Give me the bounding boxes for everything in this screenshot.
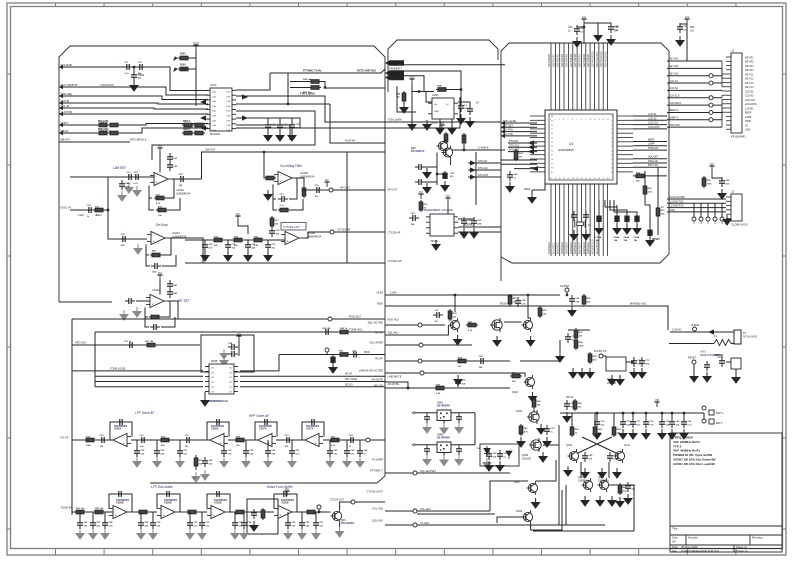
wire [571,413,573,425]
svg-text:2SB562-L: 2SB562-L [578,480,590,483]
svg-text:TX-LAMP: TX-LAMP [372,458,384,462]
wire [528,295,531,318]
svg-text:MOD: MOD [364,351,370,354]
svg-text:SET-TONE: SET-TONE [345,378,357,381]
ground [137,529,145,539]
ground [506,182,514,192]
svg-text:+: + [315,442,317,446]
resistor R137 [270,216,274,228]
wire feedback lower [273,184,276,199]
title block line above Date row [670,544,782,546]
wire MCU right net [633,128,667,130]
wire [417,513,495,515]
capacitor C163 [183,437,193,443]
capacitor C176 [280,491,290,497]
transistor Q202 [437,139,448,153]
svg-text:U102B: U102B [300,171,308,175]
wire net TXD-LApRA stair [236,96,385,122]
svg-text:47u: 47u [636,423,640,426]
wire [70,209,108,211]
wire [443,421,445,424]
svg-text:+: + [280,514,282,518]
wire stub [179,440,181,448]
wire to J1 pin 10 [667,126,722,128]
wire [179,511,207,513]
title block outer box [670,433,782,552]
ground [646,236,654,246]
junction [318,511,320,513]
capacitor C114 [119,180,125,190]
svg-text:C5A: C5A [228,342,233,345]
MCU bottom pins [551,184,608,200]
wire feedback loop [302,422,324,440]
ground up cap [454,375,462,385]
wire jbt out [168,301,178,319]
svg-text:KEY-IN4/R4: KEY-IN4/R4 [565,54,568,67]
wire [568,329,590,331]
connector P1 DC jack [734,330,741,344]
svg-text:AD0/SEG0: AD0/SEG0 [548,242,551,254]
svg-text:VCC: VCC [193,41,199,45]
wire [693,364,695,372]
wire net SHIFT [59,124,208,126]
svg-text:AUDIO 1W 10% Dist Load/4W: AUDIO 1W 10% Dist Load/4W [673,462,715,466]
wire stub [245,440,247,448]
capacitor [243,447,249,457]
svg-text:CTCSS-LPF: CTCSS-LPF [388,259,403,263]
svg-text:JBT SET: JBT SET [177,299,191,303]
wire feedback loop [207,494,230,512]
wire stub [92,512,94,520]
wire eeprom right bend [240,355,279,371]
connector pad circle [720,217,724,221]
wire eeprom left 2 [95,375,203,377]
op-amp U107B [301,434,323,447]
svg-text:CTCSS-OUT: CTCSS-OUT [330,498,344,501]
ground [125,183,133,193]
junction [527,294,529,296]
svg-text:0.1u: 0.1u [295,453,300,455]
wire stub [694,331,696,332]
wire [565,485,567,525]
svg-text:U107A: U107A [306,428,314,431]
svg-text:PTT/MIC-T: PTT/MIC-T [370,469,383,473]
wire stub [683,413,685,419]
junction [622,412,624,414]
svg-text:CLONE-JACK: CLONE-JACK [731,223,748,227]
wire DTS [468,176,501,178]
op-amp U109A [207,506,229,519]
ground [423,455,431,465]
wire drop to pad [700,203,702,217]
wire SQL-ACTIVE [385,324,445,326]
transistor Q401 [449,318,460,332]
wire af row2 in [72,511,113,513]
resistor R122 [150,253,162,257]
power B+ regulator [409,79,414,84]
test point CTCSS-out [330,230,334,234]
svg-text:-: - [152,296,153,300]
svg-text:MIC-AF: MIC-AF [374,384,383,388]
test point AF1 [366,438,370,442]
wire MCU left net [501,159,537,161]
ground [312,529,320,539]
wire long vertical bus [71,319,73,515]
capacitor [289,447,295,457]
svg-text:Q405: Q405 [516,410,523,413]
svg-text:VHF 136MHz Rx/Tx: VHF 136MHz Rx/Tx [673,440,700,444]
wire stub [156,440,158,448]
svg-text:BA-4R5R6P: BA-4R5R6P [437,405,450,408]
resistor R431 [519,424,523,436]
wire stub [632,413,634,419]
power 8V ctcss [235,216,240,221]
wire net SCI-TXD/PTT [59,87,208,95]
port tip MCU left [501,129,505,133]
ground [432,240,440,250]
resistor R5B [436,88,448,92]
ground [298,529,306,539]
capacitor C164 [213,419,223,425]
wire [450,160,452,166]
svg-text:-: - [268,435,269,439]
ground [356,457,364,467]
svg-text:U104A: U104A [152,288,160,292]
ground [76,529,84,539]
wire [714,355,722,358]
ground [448,124,456,134]
svg-text:AF-MUTE: AF-MUTE [388,382,400,386]
wire [531,490,562,530]
capacitor [344,447,350,457]
capacitor C201 [458,102,464,112]
wire feedback lower [149,185,152,198]
svg-text:KEY-C2: KEY-C2 [745,78,754,81]
wire [626,361,634,363]
svg-text:TONE-IN: TONE-IN [61,506,72,510]
title block line above Size row [670,534,782,536]
svg-text:C103: C103 [138,73,145,77]
svg-text:U107A: U107A [259,428,267,431]
ground [564,466,572,476]
wire stub [79,512,81,520]
resistor R143 [149,315,161,319]
capacitor C409 [719,357,725,367]
capacitor C408 [639,357,645,367]
resistor R406 [456,359,468,363]
wire MCU left net [501,122,537,124]
svg-text:KEY-IN0/R0: KEY-IN0/R0 [548,54,551,67]
wire [598,200,600,214]
ground [568,306,576,316]
junction [566,294,568,296]
svg-text:+: + [280,180,282,184]
svg-text:AT90S8535: AT90S8535 [558,148,574,152]
svg-text:MB-IN-T: MB-IN-T [61,137,71,141]
wire [161,301,170,317]
section box EEPROM [201,335,254,372]
resistor R310 [702,176,706,188]
ground [539,452,547,462]
ground [608,375,616,385]
wire detector out [451,412,475,414]
capacitor C302 [608,23,614,33]
svg-text:10u: 10u [333,453,337,455]
svg-text:PWR: PWR [745,120,751,123]
svg-text:BATT+: BATT+ [716,412,724,415]
wire [152,111,315,160]
capacitor [90,519,96,529]
wire [703,413,705,419]
wire af row1 out [323,439,368,441]
ground [329,363,337,373]
svg-text:C64A: C64A [596,236,602,239]
svg-text:DTS-DO: DTS-DO [478,160,487,163]
svg-text:TxA: TxA [212,124,216,127]
wire [267,118,269,122]
wire af row2 out [296,511,306,513]
wire to J1 pin 7 [667,104,722,106]
svg-text:13.8V: 13.8V [376,291,383,295]
svg-text:X9313: X9313 [430,239,438,243]
ground [242,457,250,467]
capacitor C156 [322,329,332,335]
svg-text:R81 10k: R81 10k [76,508,85,510]
ground [607,35,615,45]
svg-text:RSSI-AD: RSSI-AD [648,160,658,163]
svg-text:47u: 47u [183,452,187,455]
ground [130,81,138,91]
capacitor C131 [225,241,231,251]
capacitor [643,418,649,428]
capacitor C308 electrolytic [625,214,629,224]
capacitor [357,447,363,457]
wire [463,145,465,150]
capacitor C175 [213,491,223,497]
svg-text:File:: File: [672,549,678,553]
svg-text:REMEMBER VOLUME: REMEMBER VOLUME [424,208,453,212]
resistor R443 [612,425,616,437]
wire [443,453,445,456]
transistor Q410 [568,449,579,463]
port tip TXD-SEL [59,94,63,98]
ground [288,457,296,467]
capacitor C444 [497,450,503,460]
power 5V volume [445,198,450,203]
wire [613,413,615,425]
svg-text:VOL-AF/SP: VOL-AF/SP [369,341,383,345]
port tip SCI-TXD/PTT [59,85,63,89]
svg-text:47u: 47u [319,524,323,527]
section outline right block [501,43,669,281]
capacitor C303A [677,23,683,33]
capacitor C135 [265,241,271,251]
resistor R410 [574,338,578,350]
ground [723,215,731,225]
resistor R29 [309,80,321,84]
junction [107,209,109,211]
port tip MCU left [501,134,505,138]
section loop PA sense [480,444,519,466]
svg-text:DC-IN-JACK: DC-IN-JACK [743,336,757,339]
wire pullup feed [195,69,197,106]
svg-text:LAMP: LAMP [648,143,655,146]
wire [437,171,445,174]
resistor R177 [234,510,246,514]
capacitor C174 [163,491,173,497]
wire [425,166,437,168]
capacitor C161 [98,437,108,443]
wire [458,226,501,228]
ground [598,468,606,478]
capacitor C304 xtal [571,211,577,221]
ground [118,191,126,201]
wire MCU left net [501,126,537,128]
ground [455,423,463,433]
svg-text:47u: 47u [271,246,275,249]
wire PWR-SAVE [270,69,385,73]
ground [556,352,564,362]
resistor R441 [570,425,574,437]
fuse F1 [714,340,731,346]
svg-text:0.1u: 0.1u [125,73,130,75]
resistor R102B [108,131,120,135]
transistor Q404 [524,375,535,389]
ground [284,529,292,539]
wire [229,511,274,513]
svg-text:Q2A: Q2A [411,147,416,150]
junction [596,412,598,414]
ground [326,457,334,467]
svg-text:U102A: U102A [176,188,184,192]
wire DTS [468,169,501,171]
svg-text:R121: R121 [96,214,102,217]
wire [583,24,585,43]
wire to MCU block [385,121,501,123]
capacitor C112 [125,174,135,180]
junction [324,86,326,88]
test point [420,371,424,375]
ground [264,131,272,141]
op-amp U103A [147,232,169,245]
wire PA loop bottom [533,530,634,532]
connector pad circle [692,217,696,221]
svg-text:MB-IN: MB-IN [61,129,69,133]
MCU top pins [551,95,608,110]
svg-text:47u: 47u [450,175,454,178]
resistor R121 [93,208,105,212]
port tip SHIFT [59,123,63,127]
title block line above File row [670,548,782,550]
connector J2 pins [726,197,731,219]
wire stub [329,440,331,448]
ground [220,349,228,359]
wire [448,89,461,91]
svg-text:APC-ADJ: APC-ADJ [75,341,87,345]
svg-text:LAMP-O: LAMP-O [669,117,679,120]
capacitor C144 [150,324,160,330]
power VCC MCU top [581,19,586,24]
resistor R403 [466,323,478,327]
wire [447,203,449,214]
wire [497,517,523,523]
ground [423,423,431,433]
capacitor C166 [202,457,208,467]
ground [483,458,491,468]
wire [531,190,533,193]
capacitor C155 [350,352,360,358]
ground [454,335,462,345]
ground [638,368,646,378]
svg-text:U109B: U109B [214,502,222,505]
wire MCU left net [501,131,537,133]
svg-text:TXD-LApRA: TXD-LApRA [388,118,403,122]
transistor Q412 [582,478,593,492]
capacitor [620,418,626,428]
capacitor [669,418,675,428]
svg-text:TxB: TxB [226,101,230,103]
capacitor C401 [569,295,575,305]
wire to J2 [667,202,726,204]
svg-text:TYP 2: TYP 2 [673,444,682,448]
section box CTCSS [281,223,306,231]
capacitor [313,519,319,529]
capacitor [232,519,238,529]
svg-text:TxB: TxB [226,96,230,98]
wire [536,460,556,481]
svg-text:C64A: C64A [624,236,630,239]
capacitor C306 electrolytic [597,214,601,224]
wire net MB-IN [59,128,208,133]
port tip SCL-B [59,106,63,110]
svg-text:D:\MOTOR\AF-PWR-SUB.Sch: D:\MOTOR\AF-PWR-SUB.Sch [681,549,719,553]
wire MCU right net [633,145,667,147]
ground [586,368,594,378]
border zone ticks right [783,74,787,529]
op-amp U102B [274,172,296,185]
capacitor C135 [202,241,208,251]
wire vertical riser [287,73,289,104]
wire feedback loop [110,422,132,440]
svg-text:U106A: U106A [114,428,122,431]
ground [460,228,468,238]
power 8V row2 [284,491,289,496]
ground [264,190,272,200]
IC U201 regulator [428,98,458,119]
svg-text:U106A: U106A [211,428,219,431]
capacitor [265,447,271,457]
wire [520,340,560,361]
ground [529,392,537,402]
resistor R30 [309,86,321,90]
ground [408,120,416,130]
svg-text:KEY-IN11/R11: KEY-IN11/R11 [596,51,599,67]
svg-text:BEEP-O: BEEP-O [669,109,679,112]
wire [273,199,277,210]
capacitor C413 [456,445,462,455]
connector pad circle [709,74,713,78]
junction [460,88,462,90]
resistor R203 [462,133,466,145]
wire stub [140,512,142,520]
svg-text:RXD-3: RXD-3 [183,121,191,123]
wire eeprom left 4 [95,386,203,388]
svg-text:AD4/SEG4: AD4/SEG4 [565,242,568,254]
svg-text:AD9/SEG9: AD9/SEG9 [587,242,590,254]
ground [244,251,252,261]
wire joins J1 [722,61,726,127]
svg-text:5V: 5V [446,194,450,198]
